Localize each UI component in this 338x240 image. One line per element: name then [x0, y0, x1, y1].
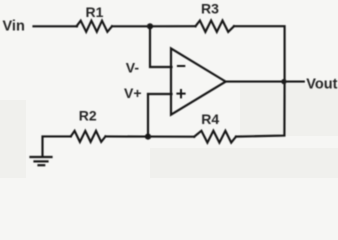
svg-text:R2: R2: [79, 107, 97, 123]
op-amp non-inverting input marker +: [177, 90, 184, 97]
svg-text:Vin: Vin: [3, 19, 25, 35]
output node junction dot: [281, 79, 286, 84]
wire op-amp output to Vout: [226, 81, 304, 83]
svg-text:R1: R1: [86, 4, 104, 20]
wire R3 to top-right corner: [234, 26, 285, 81]
svg-text:Vout: Vout: [306, 76, 337, 92]
wire right vertical output node to bottom-right corner: [236, 82, 285, 137]
wire R2 to ground corner: [43, 136, 71, 156]
op-amp U1: [171, 48, 226, 114]
wire R1 to node A: [112, 25, 150, 27]
svg-text:R3: R3: [201, 1, 219, 17]
ground: [31, 157, 52, 165]
resistor R2: [71, 131, 106, 142]
svg-text:R4: R4: [201, 111, 219, 127]
node A junction dot: [147, 23, 153, 29]
wire node A to R3: [150, 25, 196, 27]
node B junction dot: [145, 134, 151, 140]
resistor R1: [77, 21, 113, 32]
wire V+ corner to node B: [147, 94, 149, 137]
svg-text:V-: V-: [126, 60, 140, 76]
wire R4 to node B: [148, 136, 194, 138]
resistor R4: [194, 131, 236, 143]
op-amp inverting input marker -: [178, 65, 184, 67]
wire V+ stub to op-amp: [148, 93, 172, 95]
svg-text:V+: V+: [124, 85, 142, 101]
wire node A to V- input: [150, 26, 172, 67]
wire node B to R2: [106, 135, 149, 137]
resistor R3: [196, 21, 235, 32]
wire Vin to R1: [34, 25, 78, 27]
